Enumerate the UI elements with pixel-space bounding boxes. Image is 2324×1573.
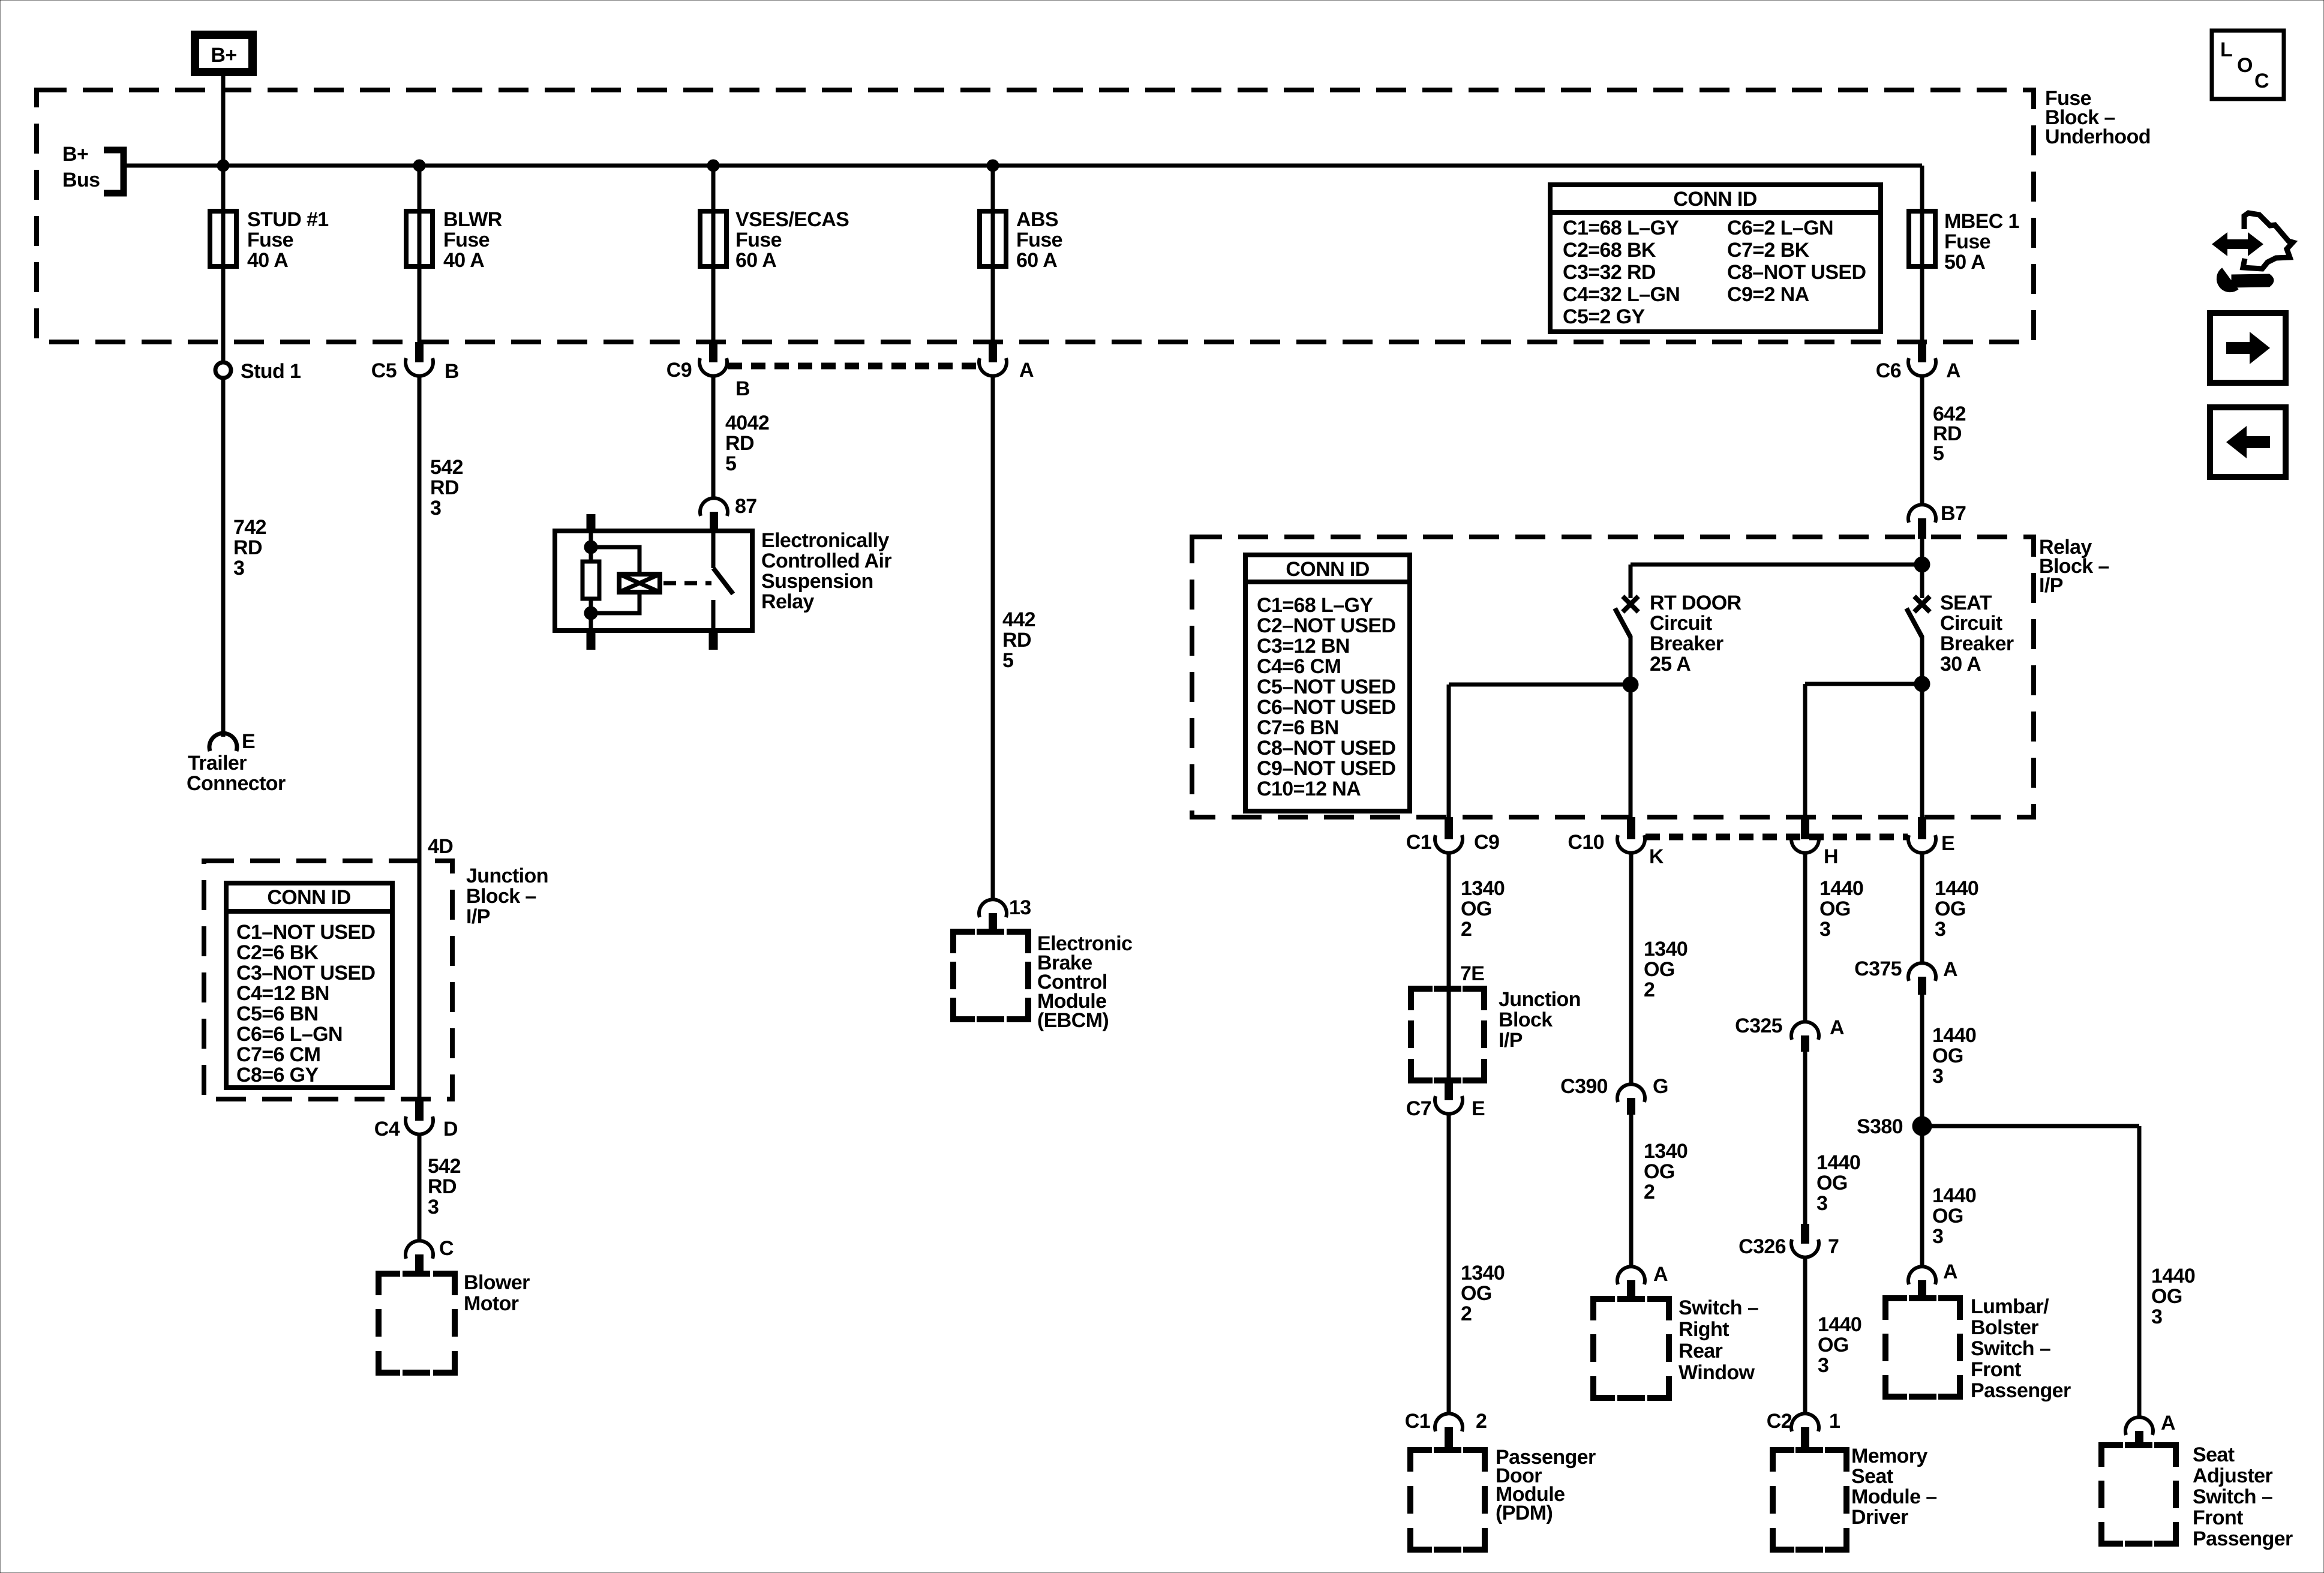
svg-text:3: 3 <box>2151 1305 2162 1328</box>
svg-text:13: 13 <box>1009 896 1031 919</box>
svg-text:Bus: Bus <box>62 169 100 191</box>
svg-text:C8–NOT USED: C8–NOT USED <box>1257 737 1395 760</box>
svg-text:Switch –: Switch – <box>1971 1337 2050 1360</box>
svg-text:CONN ID: CONN ID <box>1673 188 1756 211</box>
svg-text:Relay: Relay <box>761 590 814 613</box>
svg-text:442: 442 <box>1002 608 1035 631</box>
svg-text:A: A <box>1653 1263 1668 1286</box>
svg-text:Suspension: Suspension <box>761 570 873 593</box>
svg-text:C10=12 NA: C10=12 NA <box>1257 778 1361 800</box>
svg-text:2: 2 <box>1644 1181 1655 1203</box>
svg-text:C2=68 BK: C2=68 BK <box>1563 239 1656 262</box>
svg-text:E: E <box>1472 1097 1485 1120</box>
svg-text:C9=2 NA: C9=2 NA <box>1727 283 1809 306</box>
svg-text:MBEC 1: MBEC 1 <box>1944 210 2019 233</box>
svg-text:Controlled Air: Controlled Air <box>761 550 891 572</box>
svg-text:OG: OG <box>1935 897 1966 920</box>
svg-text:Blower: Blower <box>464 1271 530 1294</box>
svg-text:60 A: 60 A <box>1016 249 1057 272</box>
svg-text:87: 87 <box>735 495 757 518</box>
svg-text:Adjuster: Adjuster <box>2193 1464 2272 1487</box>
svg-text:Front: Front <box>2193 1506 2243 1529</box>
svg-text:3: 3 <box>233 557 244 580</box>
svg-text:C9: C9 <box>1474 831 1499 854</box>
svg-text:Seat: Seat <box>2193 1443 2235 1466</box>
svg-text:C3–NOT USED: C3–NOT USED <box>236 962 375 984</box>
svg-text:C4=32 L–GN: C4=32 L–GN <box>1563 283 1680 306</box>
svg-text:O: O <box>2237 54 2253 77</box>
svg-text:C1: C1 <box>1406 831 1431 854</box>
svg-text:Circuit: Circuit <box>1940 612 2002 635</box>
svg-text:Driver: Driver <box>1851 1506 1908 1529</box>
svg-text:C1=68 L–GY: C1=68 L–GY <box>1257 594 1373 617</box>
svg-text:A: A <box>1943 1260 1957 1283</box>
svg-text:K: K <box>1649 845 1664 868</box>
svg-text:Bolster: Bolster <box>1971 1316 2038 1339</box>
svg-text:RD: RD <box>428 1175 457 1198</box>
svg-text:2: 2 <box>1461 1302 1472 1325</box>
svg-text:1440: 1440 <box>1816 1151 1860 1174</box>
svg-text:Circuit: Circuit <box>1650 612 1712 635</box>
svg-text:I/P: I/P <box>466 905 490 928</box>
svg-text:OG: OG <box>1818 1334 1849 1356</box>
svg-text:Junction: Junction <box>1499 988 1581 1011</box>
svg-text:Motor: Motor <box>464 1292 519 1315</box>
svg-text:VSES/ECAS: VSES/ECAS <box>735 208 849 231</box>
svg-text:C6=6 L–GN: C6=6 L–GN <box>236 1023 343 1046</box>
svg-text:3: 3 <box>1816 1192 1827 1215</box>
svg-text:2: 2 <box>1644 978 1655 1001</box>
svg-text:CONN ID: CONN ID <box>267 886 350 909</box>
svg-text:C375: C375 <box>1854 957 1902 980</box>
svg-text:RD: RD <box>725 432 754 455</box>
svg-text:B: B <box>735 377 750 400</box>
svg-text:5: 5 <box>1933 442 1944 465</box>
svg-text:Switch –: Switch – <box>2193 1485 2272 1508</box>
svg-text:C2–NOT USED: C2–NOT USED <box>1257 614 1395 637</box>
svg-text:1440: 1440 <box>1932 1024 1976 1047</box>
svg-text:1340: 1340 <box>1461 877 1505 900</box>
svg-text:B7: B7 <box>1941 502 1966 525</box>
svg-text:Connector: Connector <box>187 772 286 795</box>
svg-text:C7=2 BK: C7=2 BK <box>1727 239 1810 262</box>
svg-text:4D: 4D <box>428 835 453 858</box>
svg-text:B: B <box>445 360 459 383</box>
svg-text:S380: S380 <box>1857 1115 1903 1138</box>
svg-text:RT DOOR: RT DOOR <box>1650 592 1742 614</box>
svg-text:5: 5 <box>1002 649 1013 672</box>
svg-text:B+: B+ <box>62 143 88 166</box>
svg-text:OG: OG <box>1816 1172 1848 1194</box>
svg-text:SEAT: SEAT <box>1940 592 1992 614</box>
svg-text:C2: C2 <box>1767 1410 1792 1433</box>
svg-text:Memory: Memory <box>1851 1445 1927 1467</box>
svg-text:C1–NOT USED: C1–NOT USED <box>236 921 375 944</box>
svg-text:3: 3 <box>430 497 441 520</box>
svg-text:L: L <box>2220 38 2232 61</box>
svg-text:STUD #1: STUD #1 <box>247 208 329 231</box>
svg-text:C6=2 L–GN: C6=2 L–GN <box>1727 217 1833 239</box>
svg-text:OG: OG <box>1644 958 1675 981</box>
svg-text:C7: C7 <box>1406 1097 1431 1120</box>
svg-text:E: E <box>1941 832 1954 855</box>
svg-text:Fuse: Fuse <box>735 229 782 251</box>
svg-text:1340: 1340 <box>1461 1262 1505 1284</box>
svg-text:E: E <box>242 730 255 753</box>
svg-text:Breaker: Breaker <box>1650 632 1724 655</box>
svg-text:Right: Right <box>1679 1318 1729 1341</box>
svg-text:7: 7 <box>1828 1235 1839 1258</box>
svg-text:Breaker: Breaker <box>1940 632 2014 655</box>
svg-text:3: 3 <box>428 1196 439 1218</box>
svg-text:2: 2 <box>1476 1410 1487 1433</box>
svg-text:742: 742 <box>233 516 266 539</box>
svg-text:I/P: I/P <box>2039 574 2063 597</box>
svg-text:C4=12 BN: C4=12 BN <box>236 982 329 1005</box>
svg-text:C8=6 GY: C8=6 GY <box>236 1064 319 1086</box>
svg-text:C4: C4 <box>374 1118 400 1140</box>
svg-text:60 A: 60 A <box>735 249 776 272</box>
svg-text:C6: C6 <box>1876 359 1901 382</box>
svg-text:Fuse: Fuse <box>443 229 490 251</box>
svg-text:Passenger: Passenger <box>1971 1379 2071 1402</box>
svg-text:3: 3 <box>1932 1065 1943 1088</box>
svg-text:Seat: Seat <box>1851 1465 1893 1488</box>
svg-text:B+: B+ <box>211 44 236 67</box>
svg-text:C390: C390 <box>1560 1075 1608 1098</box>
svg-text:3: 3 <box>1935 918 1945 941</box>
svg-text:Trailer: Trailer <box>188 752 247 775</box>
svg-text:Passenger: Passenger <box>2193 1527 2293 1550</box>
svg-text:OG: OG <box>1461 897 1492 920</box>
svg-text:Stud 1: Stud 1 <box>241 360 301 383</box>
svg-text:1440: 1440 <box>1935 877 1978 900</box>
svg-text:1: 1 <box>1829 1410 1840 1433</box>
svg-text:C4=6 CM: C4=6 CM <box>1257 655 1341 678</box>
svg-text:Switch –: Switch – <box>1679 1296 1758 1319</box>
svg-text:5: 5 <box>725 452 736 475</box>
svg-text:(PDM): (PDM) <box>1496 1502 1553 1524</box>
svg-text:C7=6 CM: C7=6 CM <box>236 1043 320 1066</box>
svg-text:C2=6 BK: C2=6 BK <box>236 941 319 964</box>
svg-text:OG: OG <box>1644 1160 1675 1183</box>
svg-text:G: G <box>1653 1075 1668 1098</box>
svg-text:C7=6 BN: C7=6 BN <box>1257 716 1339 739</box>
svg-text:50 A: 50 A <box>1944 251 1985 274</box>
svg-text:Underhood: Underhood <box>2045 125 2151 148</box>
svg-text:Electronically: Electronically <box>761 529 889 552</box>
svg-text:542: 542 <box>428 1155 461 1178</box>
svg-text:1440: 1440 <box>2151 1265 2195 1287</box>
svg-text:C: C <box>2254 70 2269 92</box>
svg-text:Fuse: Fuse <box>1944 230 1990 253</box>
svg-text:Window: Window <box>1679 1361 1755 1384</box>
svg-text:1340: 1340 <box>1644 1140 1688 1163</box>
svg-text:A: A <box>1943 958 1957 981</box>
svg-text:RD: RD <box>1002 629 1031 652</box>
svg-text:C8–NOT USED: C8–NOT USED <box>1727 261 1866 284</box>
svg-text:25 A: 25 A <box>1650 653 1691 676</box>
svg-text:1340: 1340 <box>1644 938 1688 960</box>
svg-text:CONN ID: CONN ID <box>1286 558 1369 581</box>
svg-text:Block: Block <box>1499 1008 1553 1031</box>
svg-text:D: D <box>443 1118 458 1140</box>
svg-text:OG: OG <box>2151 1285 2182 1308</box>
svg-text:OG: OG <box>1819 897 1851 920</box>
svg-text:Block –: Block – <box>466 885 536 908</box>
svg-text:C5=2 GY: C5=2 GY <box>1563 305 1646 328</box>
svg-text:C5: C5 <box>371 359 397 382</box>
svg-text:C9: C9 <box>666 359 692 382</box>
svg-text:C10: C10 <box>1568 831 1604 854</box>
svg-text:C3=32 RD: C3=32 RD <box>1563 261 1656 284</box>
svg-text:C326: C326 <box>1739 1235 1786 1258</box>
svg-text:C325: C325 <box>1735 1014 1782 1037</box>
svg-text:1440: 1440 <box>1818 1313 1861 1336</box>
svg-text:40 A: 40 A <box>247 249 288 272</box>
svg-text:OG: OG <box>1932 1205 1963 1227</box>
svg-text:C5=6 BN: C5=6 BN <box>236 1002 319 1025</box>
svg-text:ABS: ABS <box>1016 208 1058 231</box>
svg-text:3: 3 <box>1819 918 1830 941</box>
svg-text:30 A: 30 A <box>1940 653 1981 676</box>
svg-text:OG: OG <box>1932 1044 1963 1067</box>
svg-text:4042: 4042 <box>725 412 769 434</box>
svg-text:A: A <box>2161 1412 2175 1434</box>
svg-text:2: 2 <box>1461 918 1472 941</box>
svg-text:OG: OG <box>1461 1282 1492 1305</box>
svg-text:542: 542 <box>430 456 463 479</box>
svg-text:C5–NOT USED: C5–NOT USED <box>1257 676 1395 698</box>
svg-text:A: A <box>1830 1016 1844 1039</box>
svg-text:RD: RD <box>233 536 262 559</box>
svg-text:A: A <box>1019 359 1034 382</box>
svg-text:7E: 7E <box>1460 962 1484 985</box>
svg-text:Rear: Rear <box>1679 1340 1723 1362</box>
svg-text:Front: Front <box>1971 1358 2021 1381</box>
svg-text:3: 3 <box>1932 1225 1943 1248</box>
svg-text:BLWR: BLWR <box>443 208 502 231</box>
svg-text:1440: 1440 <box>1819 877 1863 900</box>
svg-text:1440: 1440 <box>1932 1184 1976 1207</box>
svg-text:C1: C1 <box>1405 1410 1430 1433</box>
svg-text:(EBCM): (EBCM) <box>1037 1009 1109 1032</box>
svg-text:3: 3 <box>1818 1354 1828 1377</box>
svg-text:Junction: Junction <box>466 864 548 887</box>
svg-text:C3=12 BN: C3=12 BN <box>1257 635 1350 658</box>
svg-text:Module –: Module – <box>1851 1485 1937 1508</box>
svg-text:RD: RD <box>430 476 459 499</box>
svg-text:H: H <box>1824 845 1838 868</box>
svg-text:40 A: 40 A <box>443 249 484 272</box>
svg-text:Fuse: Fuse <box>247 229 293 251</box>
svg-text:C6–NOT USED: C6–NOT USED <box>1257 696 1395 719</box>
svg-text:Fuse: Fuse <box>1016 229 1062 251</box>
svg-text:I/P: I/P <box>1499 1029 1523 1052</box>
svg-text:C: C <box>439 1237 454 1260</box>
svg-text:A: A <box>1946 359 1960 382</box>
svg-text:Lumbar/: Lumbar/ <box>1971 1295 2049 1318</box>
svg-text:C9–NOT USED: C9–NOT USED <box>1257 757 1395 780</box>
svg-text:C1=68 L–GY: C1=68 L–GY <box>1563 217 1679 239</box>
